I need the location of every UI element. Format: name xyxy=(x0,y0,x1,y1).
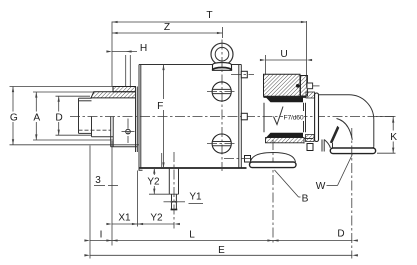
bell housing B xyxy=(250,153,297,168)
leader W xyxy=(316,155,353,193)
surface finish F7/d60 xyxy=(274,107,305,125)
svg-text:D: D xyxy=(337,229,344,240)
bell axis centerline xyxy=(272,140,274,244)
dimension T xyxy=(112,10,307,23)
outlet axis xyxy=(351,128,353,259)
dimension D left xyxy=(54,96,92,135)
dimension Y2 horizontal xyxy=(132,213,180,226)
svg-text:D: D xyxy=(55,112,62,123)
elbow flange xyxy=(315,93,325,152)
dimension Y1 xyxy=(164,192,204,204)
dimension D bottom xyxy=(267,229,358,242)
extension line x90 xyxy=(89,146,91,259)
dimension G xyxy=(9,87,139,145)
dimension Z xyxy=(112,22,223,38)
svg-text:F: F xyxy=(157,101,163,112)
journal shaft xyxy=(264,103,306,133)
svg-text:G: G xyxy=(10,112,18,123)
dimension H xyxy=(106,43,147,87)
svg-text:H: H xyxy=(140,43,147,54)
svg-text:T: T xyxy=(206,10,212,21)
seal ring bottom xyxy=(266,133,303,138)
eye bolt xyxy=(211,43,233,70)
dimension X1 xyxy=(106,213,143,226)
dimension U xyxy=(260,49,312,74)
elbow outlet rim xyxy=(330,148,375,154)
dimension E xyxy=(84,245,358,257)
extension body corner xyxy=(137,171,139,227)
plug tab lower xyxy=(224,156,252,163)
union nut bottom xyxy=(304,139,313,151)
leader B xyxy=(275,170,309,205)
quill shaft xyxy=(79,98,111,133)
flange plate (hatched) xyxy=(91,92,136,98)
eyebolt axis xyxy=(221,40,223,172)
plug tab upper xyxy=(231,71,254,78)
dimension L xyxy=(106,230,278,242)
dimension I xyxy=(84,230,117,242)
sleeve top hatch block xyxy=(264,74,308,97)
svg-text:K: K xyxy=(390,132,397,143)
drain boss xyxy=(149,152,179,229)
svg-text:L: L xyxy=(189,230,195,241)
svg-text:F7/d60: F7/d60 xyxy=(284,115,304,122)
dimension A xyxy=(32,92,113,140)
svg-text:Z: Z xyxy=(164,22,170,33)
svg-text:3: 3 xyxy=(95,175,101,186)
label 3 leader xyxy=(94,175,118,186)
svg-text:W: W xyxy=(316,181,326,192)
svg-text:Y2: Y2 xyxy=(150,213,163,224)
union nut top xyxy=(307,83,320,89)
extension line x112 xyxy=(111,141,113,246)
dimension Y2 vertical xyxy=(146,168,161,194)
flange face xyxy=(136,87,138,153)
svg-text:I: I xyxy=(100,230,103,241)
flange lower hidden profile xyxy=(92,117,138,147)
port circle lower xyxy=(207,134,237,153)
svg-text:A: A xyxy=(33,112,40,123)
bolt hole symbol xyxy=(122,119,135,144)
centerline main axis xyxy=(70,116,394,118)
plug tab middle xyxy=(241,113,247,120)
extension line left (T/Z/H) xyxy=(111,22,113,87)
seal ring top xyxy=(266,98,303,103)
nut hatch right bottom xyxy=(306,135,315,142)
svg-text:Y1: Y1 xyxy=(189,192,202,203)
elbow body xyxy=(319,95,374,148)
svg-text:B: B xyxy=(302,194,309,205)
port circle upper xyxy=(207,82,237,101)
svg-text:E: E xyxy=(218,245,225,256)
svg-text:X1: X1 xyxy=(118,213,131,224)
seal bore line xyxy=(161,153,163,168)
nut hatch right top xyxy=(306,92,315,98)
sleeve bottom hatch band xyxy=(266,138,305,143)
extension line right (T/U) xyxy=(306,21,308,87)
dimension F xyxy=(155,65,165,169)
flange hub (hatched) xyxy=(113,87,136,92)
body housing xyxy=(139,65,247,171)
dimension K xyxy=(376,117,399,154)
svg-text:U: U xyxy=(280,49,287,60)
svg-text:Y2: Y2 xyxy=(147,177,160,188)
